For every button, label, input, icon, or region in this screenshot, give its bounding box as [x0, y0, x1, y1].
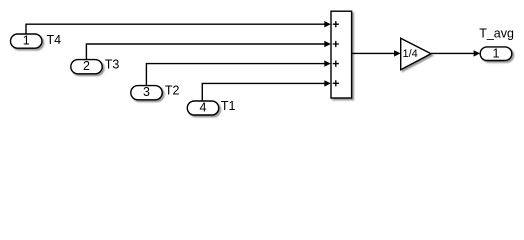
svg-text:T3: T3: [105, 58, 120, 72]
svg-text:1: 1: [23, 34, 30, 48]
svg-text:T4: T4: [47, 33, 62, 47]
svg-text:1: 1: [493, 47, 500, 61]
svg-text:T2: T2: [165, 84, 180, 98]
svg-text:3: 3: [143, 85, 150, 99]
svg-text:T_avg: T_avg: [479, 26, 514, 40]
svg-text:1/4: 1/4: [403, 48, 418, 60]
svg-text:2: 2: [83, 59, 90, 73]
svg-text:4: 4: [200, 100, 207, 114]
svg-text:T1: T1: [221, 99, 236, 113]
